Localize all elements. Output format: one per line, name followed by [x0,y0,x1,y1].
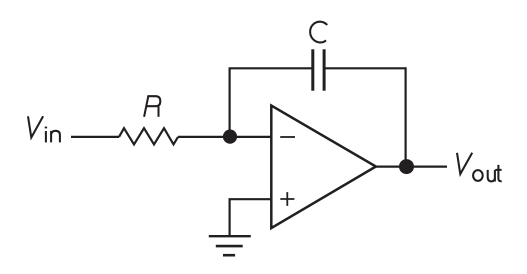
node Vin label [28,116,60,142]
resistor R [119,128,178,144]
label R [144,96,160,117]
wire feedback right vertical [405,67,407,166]
capacitor C [313,49,324,90]
wire resistor to op-amp inverting input [178,136,271,138]
wire feedback left vertical [229,68,231,136]
wire feedback top right horizontal [324,67,406,69]
label C [310,22,327,43]
node A junction dot (inverting input) [223,130,237,144]
node Vout label [457,153,502,182]
pin minus (inverting input sign) [280,136,295,138]
wire op-amp output [376,166,447,168]
pin plus (non-inverting input sign) [280,192,294,206]
wire Vin to resistor [71,136,119,138]
op-amp U1 triangle [271,106,376,229]
node B junction dot (output) [399,159,414,174]
wire feedback top left horizontal [229,67,313,69]
wire non-inverting input [230,199,271,236]
ground [209,236,251,255]
